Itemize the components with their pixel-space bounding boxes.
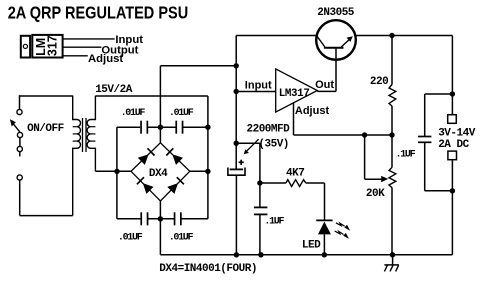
svg-text:Out: Out	[315, 79, 334, 91]
svg-text:.1UF: .1UF	[264, 217, 284, 228]
svg-text:(35V): (35V)	[258, 138, 289, 150]
svg-text:3V-14V: 3V-14V	[438, 128, 476, 140]
svg-text:Input: Input	[245, 80, 272, 92]
svg-text:220: 220	[370, 76, 388, 88]
svg-text:DX4=IN4001(FOUR): DX4=IN4001(FOUR)	[159, 263, 257, 275]
svg-text:.01UF: .01UF	[118, 233, 143, 244]
svg-text:.01UF: .01UF	[169, 108, 194, 119]
svg-text:DX4: DX4	[149, 168, 168, 180]
svg-text:.01UF: .01UF	[169, 233, 194, 244]
svg-text:317: 317	[46, 35, 60, 56]
svg-text:15V/2A: 15V/2A	[95, 84, 133, 96]
svg-text:LED: LED	[302, 239, 321, 251]
svg-text:.1UF: .1UF	[396, 150, 416, 161]
svg-text:Adjust: Adjust	[295, 105, 330, 117]
svg-text:2N3055: 2N3055	[317, 7, 355, 19]
svg-text:2200MFD: 2200MFD	[247, 123, 291, 135]
svg-text:.01UF: .01UF	[121, 108, 146, 119]
svg-text:LM317: LM317	[279, 88, 310, 100]
svg-text:ON/OFF: ON/OFF	[27, 123, 64, 135]
svg-text:4K7: 4K7	[286, 167, 304, 179]
svg-text:Adjust: Adjust	[88, 53, 123, 65]
svg-text:2A DC: 2A DC	[438, 139, 469, 151]
svg-text:20K: 20K	[366, 188, 385, 200]
svg-text:2A QRP REGULATED PSU: 2A QRP REGULATED PSU	[8, 3, 188, 23]
